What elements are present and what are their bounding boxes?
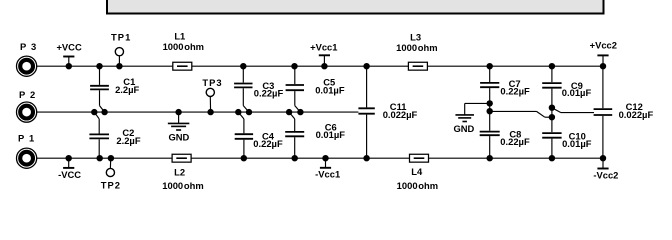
junction dot C7/GND node <box>487 100 493 106</box>
junction dot C1 top <box>96 63 102 69</box>
junction dot C1-middle <box>101 109 107 115</box>
junction dot C3 top <box>240 63 246 69</box>
svg-text:P 3: P 3 <box>20 41 36 52</box>
svg-text:-Vcc1: -Vcc1 <box>315 169 340 180</box>
junction dot C10 top node <box>549 114 555 120</box>
terminal +Vcc2 <box>590 39 617 66</box>
wire C5 jog to middle rail <box>295 91 301 112</box>
wire mid net to C12 <box>552 108 594 113</box>
junction dot C2 bottom <box>97 155 103 161</box>
junction dot TP3 <box>207 109 213 115</box>
port P3 <box>17 41 37 76</box>
wire C7-C8 column <box>489 88 491 131</box>
capacitor C2 <box>89 127 140 158</box>
svg-text:1000 ohm: 1000 ohm <box>163 41 204 52</box>
junction dot C6-middle <box>286 109 292 115</box>
junction dot C4-middle <box>235 109 241 115</box>
capacitor C7 <box>480 66 530 97</box>
junction dot +VCC <box>66 63 72 69</box>
svg-text:+Vcc2: +Vcc2 <box>590 39 617 50</box>
inductor L1 <box>163 30 204 70</box>
svg-text:0.01µF: 0.01µF <box>562 138 592 149</box>
capacitor C11 <box>358 66 417 158</box>
capacitor C9 <box>542 66 591 108</box>
junction dot C5 top <box>291 63 297 69</box>
wire bottom -V rail <box>37 157 603 159</box>
junction dot TP2 <box>108 155 114 161</box>
wire C6 jog from middle rail <box>289 112 295 131</box>
capacitor C12 <box>594 66 654 158</box>
junction dot C9 bottom node <box>549 105 555 111</box>
terminal +VCC <box>56 41 81 66</box>
svg-text:TP1: TP1 <box>111 31 131 42</box>
svg-text:P 2: P 2 <box>19 89 35 100</box>
capacitor C4 <box>235 131 283 159</box>
wire C1 jog to middle rail <box>100 90 105 112</box>
svg-text:L4: L4 <box>411 166 423 177</box>
svg-text:-VCC: -VCC <box>58 169 81 180</box>
inductor L3 <box>396 31 437 70</box>
wire C2 jog from middle rail <box>94 112 99 133</box>
junction dot C3-middle <box>246 109 252 115</box>
junction dot C7 top <box>487 63 493 69</box>
test point TP2 <box>101 158 121 190</box>
junction dot C9 top <box>549 63 555 69</box>
capacitor C10 <box>542 117 592 158</box>
junction dot +Vcc2 <box>600 63 606 69</box>
junction dot C5-middle <box>297 109 303 115</box>
terminal -Vcc2 <box>593 158 618 180</box>
wire C3 jog to middle rail <box>243 88 249 112</box>
ground GND (right) <box>453 103 489 133</box>
junction dot TP1 <box>116 63 122 69</box>
inductor L4 <box>397 154 438 191</box>
ground GND (middle rail) <box>168 112 190 143</box>
svg-text:0.022µF: 0.022µF <box>619 109 654 120</box>
svg-text:1000 ohm: 1000 ohm <box>397 180 438 191</box>
wire C9/C10 link <box>551 108 553 118</box>
inductor L2 <box>162 154 203 191</box>
svg-text:+Vcc1: +Vcc1 <box>310 42 337 53</box>
svg-text:1000 ohm: 1000 ohm <box>162 180 203 191</box>
junction dot C11 top <box>363 63 369 69</box>
svg-text:2.2µF: 2.2µF <box>116 135 140 146</box>
terminal -VCC <box>58 158 81 180</box>
junction dot C8/mid node <box>487 108 493 114</box>
svg-text:GND: GND <box>453 123 474 134</box>
junction dot -VCC <box>66 155 72 161</box>
svg-text:P 1: P 1 <box>18 133 34 144</box>
svg-text:L3: L3 <box>410 31 421 42</box>
capacitor C8 <box>480 128 530 158</box>
port P2 <box>17 89 37 122</box>
svg-text:GND: GND <box>168 132 189 143</box>
wire mid net jog to C9/C10 column <box>490 111 552 117</box>
junction dot +Vcc1 <box>321 63 327 69</box>
junction dot C11 bottom <box>363 155 369 161</box>
svg-text:+VCC: +VCC <box>56 41 81 52</box>
svg-text:0.01µF: 0.01µF <box>315 84 345 95</box>
test point TP1 <box>111 31 131 66</box>
svg-text:TP3: TP3 <box>202 77 222 88</box>
port P1 <box>17 133 37 169</box>
wire top +V rail <box>37 65 603 67</box>
capacitor C5 <box>286 66 345 95</box>
svg-text:0.01µF: 0.01µF <box>562 87 592 98</box>
svg-text:TP2: TP2 <box>101 179 121 190</box>
junction dot C10 bottom <box>549 155 555 161</box>
junction dot C8 bottom <box>487 155 493 161</box>
svg-text:0.01µF: 0.01µF <box>316 129 346 140</box>
junction dot C6 bottom <box>292 155 298 161</box>
title block (cropped gray header box) <box>107 0 604 14</box>
svg-text:0.022µF: 0.022µF <box>383 109 418 120</box>
capacitor C1 <box>90 66 139 95</box>
wire middle GND rail <box>37 111 359 113</box>
junction dot C4 bottom <box>241 155 247 161</box>
terminal +Vcc1 <box>310 42 337 67</box>
svg-text:0.22µF: 0.22µF <box>500 86 530 97</box>
svg-text:0.22µF: 0.22µF <box>253 138 283 149</box>
junction dot C2-middle <box>91 109 97 115</box>
svg-text:-Vcc2: -Vcc2 <box>593 170 618 181</box>
capacitor C6 <box>285 121 345 158</box>
junction dot -Vcc1 <box>322 155 328 161</box>
svg-text:1000 ohm: 1000 ohm <box>396 42 437 53</box>
svg-text:L1: L1 <box>174 30 185 41</box>
svg-text:L2: L2 <box>174 167 185 178</box>
svg-text:0.22µF: 0.22µF <box>500 136 530 147</box>
junction dot -Vcc2 <box>600 155 606 161</box>
svg-text:0.22µF: 0.22µF <box>254 87 284 98</box>
test point TP3 <box>202 77 222 112</box>
svg-text:2.2µF: 2.2µF <box>115 84 139 95</box>
wire C4 jog from middle rail <box>238 112 244 133</box>
capacitor C3 <box>234 66 283 98</box>
terminal -Vcc1 <box>315 158 340 179</box>
junction dot GND-middle <box>175 109 181 115</box>
